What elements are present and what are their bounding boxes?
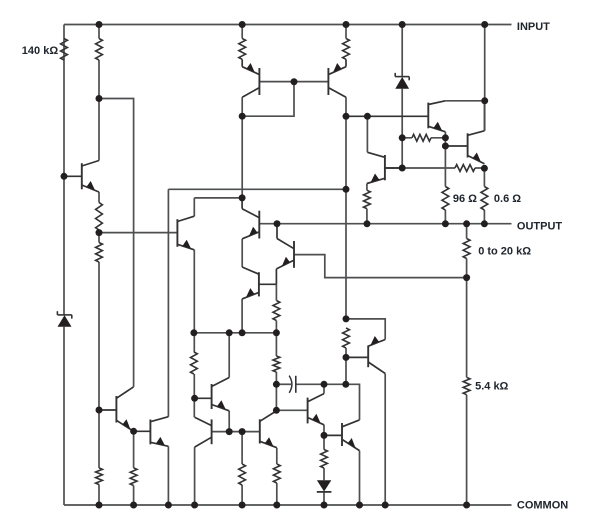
wire Q14 emitter to bottom resistor [276, 448, 278, 505]
svg-text:INPUT: INPUT [517, 21, 550, 33]
wire Q15 base feed [276, 409, 307, 411]
wire collector rail of Q4 to input node [445, 100, 484, 102]
resistor R20 5.4k [463, 377, 470, 394]
node Q16 base [321, 432, 328, 439]
wire Q8 emitter link [241, 299, 243, 333]
resistor R16 [321, 450, 328, 469]
junction dots y138 [399, 134, 449, 141]
transistor Q18 [445, 131, 484, 164]
wire zener D2 column [401, 25, 403, 169]
node Q10 base [96, 407, 103, 414]
wire Q9 emitter resistor link [366, 184, 368, 225]
label 5.4 kOhm [475, 381, 508, 393]
wire rail y189 [168, 188, 346, 190]
transistor Q6 [276, 224, 294, 285]
wire Q13 collector column [228, 333, 230, 378]
node Q18 base [442, 143, 449, 150]
resistor R3 (Q1 emitter) [96, 203, 103, 231]
wire column x276 lower [275, 333, 277, 411]
wire Q4 emitter node link [444, 132, 446, 187]
junction dots top rail [96, 21, 489, 28]
wire column x242 lower [241, 432, 243, 505]
transistor Q10 [99, 387, 134, 432]
resistor R2 [96, 39, 103, 61]
wire Q17 emitter feed [346, 319, 385, 340]
diode D3 [317, 480, 332, 492]
wire Q18 collector link [483, 101, 485, 131]
label 140 kOhm [22, 45, 59, 57]
wire Q11 emitter to common [167, 446, 169, 505]
node adj [463, 274, 470, 281]
node input collector [481, 97, 488, 104]
node Q17 base [343, 354, 350, 361]
wire base rail y232 [99, 232, 177, 234]
wire second column middle [98, 192, 100, 505]
wire Q8 base link [275, 284, 277, 333]
node Q6 collector [274, 220, 281, 227]
wire mirror column top [241, 25, 243, 39]
svg-text:140 kΩ: 140 kΩ [22, 45, 59, 57]
transistor Q14 [260, 411, 277, 448]
node rail189 end [343, 186, 350, 193]
wire capacitor left lead [276, 383, 291, 385]
zener diode D1 [57, 311, 71, 327]
transistor Q17 [346, 336, 385, 374]
wire bottom common rail [64, 504, 512, 506]
node Q1 base [61, 173, 68, 180]
node Q11 base [130, 428, 137, 435]
wire left rail top (140k column) [63, 25, 65, 315]
transistor Q4 [346, 101, 445, 132]
junction dots x242 column [239, 113, 246, 202]
wire x346 column [345, 97, 347, 384]
svg-text:5.4 kΩ: 5.4 kΩ [475, 381, 508, 393]
wire rail y138 [402, 137, 445, 139]
label 96 Ohm [453, 193, 477, 205]
transistor Q9 [367, 152, 402, 183]
wire rail y333 [194, 332, 277, 334]
transistor Q7 [177, 216, 194, 250]
wire Q6 base jog to adj node [294, 255, 467, 278]
node B [96, 95, 103, 102]
wire Q12 emitter to common [194, 447, 196, 505]
junction dots output rail [364, 220, 488, 227]
transistor Q2 [242, 59, 259, 97]
junction dots rail y384 [273, 381, 349, 388]
resistor R14 [239, 464, 246, 485]
resistor R18 0.6 ohm [481, 187, 488, 211]
wire 0.6ohm to output rail [483, 210, 485, 224]
transistor Q12 [195, 417, 212, 447]
label 0.6 Ohm [494, 193, 521, 205]
wire rail y168 [385, 167, 485, 169]
transistor Q13 [195, 378, 230, 411]
capacitor C1 [289, 376, 296, 393]
node Q13 base [191, 395, 198, 402]
transistor Q15 [308, 394, 324, 425]
wire Q10 emitter to bottom resistor [133, 431, 135, 505]
resistor R21 (horizontal y138) [412, 134, 431, 141]
resistor R17 96 ohm [442, 187, 449, 211]
junction dots rail y333 [190, 329, 280, 336]
wire Q17 collector to common [384, 374, 386, 506]
transistor Q3 [328, 59, 346, 97]
node mirror base tie [291, 78, 298, 85]
zener diode D2 [395, 73, 409, 89]
wire rail y198 [194, 198, 242, 216]
resistor R11 [191, 352, 198, 374]
resistor R6 [130, 468, 137, 486]
wire adjust column [466, 224, 468, 505]
label COMMON [517, 500, 568, 512]
junction dots base rail y116 [343, 113, 371, 120]
transistor Q5 [242, 198, 259, 239]
wire x346 top resistor feed [345, 25, 347, 39]
label 0 to 20 kOhm [478, 246, 531, 258]
wire Q16 emitter to common [359, 451, 361, 505]
resistor R5 [96, 468, 103, 485]
svg-text:96 Ω: 96 Ω [453, 193, 477, 205]
resistor R4 [96, 243, 103, 263]
resistor R12 [273, 356, 280, 372]
node y232 [96, 229, 103, 236]
transistor Q16 [324, 420, 360, 451]
wire output rail [259, 223, 511, 225]
wire fourth column (Q11 collector) [167, 189, 169, 416]
junction dots base rail y431 [226, 428, 246, 435]
junction dots common rail [96, 502, 471, 509]
wire second column upper [98, 25, 100, 161]
svg-text:0.6 Ω: 0.6 Ω [494, 193, 521, 205]
wire Q2 collector column [241, 97, 243, 198]
wire base tie of Q2 Q3 [242, 82, 328, 117]
label INPUT [517, 21, 550, 33]
transistor Q8 [242, 267, 276, 299]
label OUTPUT [517, 220, 563, 232]
wire Q15 collector stub [323, 384, 325, 393]
wire base rail y431 [212, 431, 260, 433]
resistor R7 (Q2 emitter) [239, 39, 246, 60]
node x346 tap [343, 315, 350, 322]
wire Q15 emitter chain [323, 425, 325, 505]
resistor R9 (Q9 emitter) [364, 190, 371, 208]
resistor R19 0 to 20k [463, 239, 470, 259]
resistor R22 (horizontal y168) [455, 165, 475, 172]
svg-text:OUTPUT: OUTPUT [517, 220, 563, 232]
wire branch node B to third column [99, 99, 134, 387]
junction dots y168 [399, 165, 488, 172]
wire Q5 emitter link [241, 239, 243, 267]
resistor R8 (Q3 emitter) [343, 39, 350, 60]
wire capacitor right lead to corner [296, 384, 360, 420]
svg-text:0 to 20 kΩ: 0 to 20 kΩ [478, 246, 531, 258]
resistor R13 (Q17 base) [343, 328, 350, 348]
wire top input rail [64, 24, 512, 26]
wire input column right [484, 25, 486, 131]
wire left rail bottom below zener D1 [63, 327, 65, 505]
resistor R10 (Q8 base) [273, 301, 280, 321]
transistor Q1 [64, 161, 99, 193]
node Q15 base feed [273, 407, 280, 414]
wire 96ohm to output rail [444, 210, 446, 224]
resistor R1 140k [61, 39, 68, 61]
wire Q9 collector link [366, 116, 368, 152]
transistor Q11 [134, 417, 169, 447]
resistor R15 [273, 464, 280, 483]
wire 0.6ohm node link [483, 168, 485, 186]
svg-text:COMMON: COMMON [517, 500, 568, 512]
wire Q13 emitter link [228, 411, 230, 432]
wire Q7 emitter column [193, 250, 195, 417]
